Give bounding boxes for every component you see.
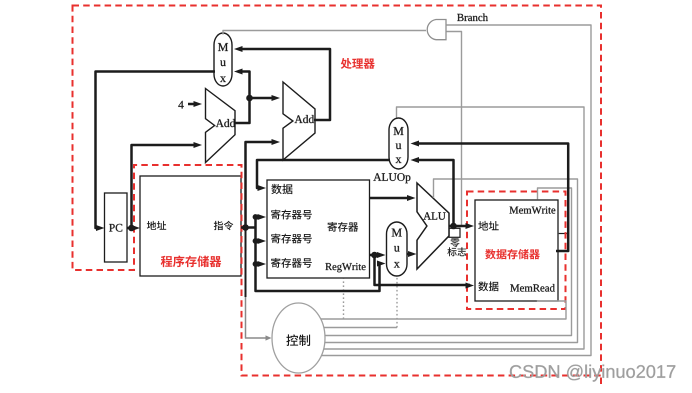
wire: read data 2 to data memory bbox=[375, 255, 471, 285]
label 寄存器号 2 bbox=[271, 234, 312, 244]
zero flag box 零标志 bbox=[449, 228, 460, 237]
arrowhead into PC bbox=[96, 225, 105, 231]
wire: to register number input bbox=[256, 216, 263, 219]
label 标志 bbox=[447, 247, 466, 256]
processor dashed boundary 处理器 bbox=[73, 6, 602, 376]
label MemWrite bbox=[510, 207, 556, 214]
wire: Mux2 output to register write data bbox=[257, 160, 390, 188]
data memory dashed box bbox=[467, 192, 566, 310]
wire: RegWrite dotted riser bbox=[343, 279, 345, 320]
label MemRead bbox=[510, 284, 555, 292]
adder Add2 bbox=[283, 82, 315, 160]
wire: constant 4 to Add1 bbox=[188, 103, 198, 106]
register file 寄存器 bbox=[267, 180, 370, 278]
arrowhead into 寄存器号 bbox=[258, 238, 267, 244]
wire: Add1 output to Mux1 bbox=[234, 72, 250, 124]
mux U2 (write-back) bbox=[389, 118, 408, 169]
arrowhead into Mux2 lower input bbox=[411, 157, 420, 163]
node: read data 2 junction bbox=[371, 252, 378, 259]
arrowhead into Add1 lower input bbox=[194, 142, 203, 148]
arrowhead into 数据 (data memory) bbox=[466, 283, 475, 289]
program memory 程序存储器 bbox=[140, 176, 241, 276]
arrowhead into Mux3 lower input bbox=[377, 261, 386, 267]
label 数据存储器 (red) bbox=[485, 249, 540, 259]
wire: Add2 output to Mux1 bbox=[238, 49, 330, 120]
wire: Zero flag to AND gate bbox=[447, 32, 462, 227]
arrowhead into Add2 upper input bbox=[272, 95, 281, 101]
arrowhead into 寄存器号 bbox=[258, 214, 267, 220]
wire: to register number input bbox=[256, 263, 263, 266]
arrowhead into Mux1 upper input bbox=[234, 46, 243, 52]
label 数据 (register file) bbox=[271, 184, 292, 194]
label 地址 (data memory) bbox=[478, 221, 498, 231]
label 地址 (program memory) bbox=[147, 221, 166, 230]
AND gate (branch) bbox=[427, 20, 446, 40]
wire: MemWrite control bbox=[325, 188, 572, 336]
wire: Mux1 output to PC bbox=[96, 72, 216, 229]
dashed overshoot below bottom-right corner bbox=[600, 378, 602, 388]
node: register tap 1 bbox=[253, 214, 259, 220]
node: PC output junction bbox=[128, 225, 135, 232]
node: register tap 2 bbox=[253, 238, 259, 244]
label Branch bbox=[457, 14, 488, 22]
arrowhead into Mux3 upper input bbox=[377, 252, 386, 258]
label 指令 bbox=[214, 221, 234, 230]
label Add (Add2) bbox=[295, 115, 315, 123]
wire: Mux3 select control bbox=[324, 327, 397, 329]
wire: read data 2 bbox=[370, 254, 382, 257]
wire: PC+4 to Add2 upper input bbox=[250, 97, 277, 100]
label 程序存储器 (red) bbox=[161, 256, 222, 268]
wire: Mux3 output to ALU bbox=[407, 253, 412, 256]
node: register tap 3 bbox=[253, 261, 259, 267]
arrow into control bbox=[266, 335, 272, 340]
arrowhead into Add2 lower input bbox=[272, 139, 281, 145]
label 寄存器号 3 bbox=[271, 258, 312, 268]
label RegWrite bbox=[325, 263, 365, 272]
node: instruction junction bbox=[242, 224, 249, 231]
label ALU bbox=[423, 212, 445, 219]
arrowhead into 地址 (data memory) bbox=[466, 223, 475, 229]
wire: read data 1 to ALU bbox=[370, 197, 412, 200]
label 寄存器 bbox=[328, 222, 359, 232]
label ALUOp bbox=[373, 173, 410, 183]
wire: immediate to Mux3 bbox=[256, 217, 382, 291]
label 寄存器号 1 bbox=[271, 210, 312, 220]
label 零 bbox=[450, 238, 459, 247]
wire: register number taps bbox=[246, 226, 256, 229]
arrowhead into 数据 (register file) bbox=[258, 185, 267, 191]
label PC bbox=[109, 224, 122, 232]
wire: MemRead control bbox=[321, 300, 566, 319]
wire: Mux2 select control bbox=[324, 107, 584, 349]
arrowhead into Mux1 lower input bbox=[234, 69, 243, 75]
mux U1 (PC source) bbox=[214, 33, 232, 86]
adder Add1 bbox=[206, 89, 236, 163]
wire: Mux3 select dotted riser bbox=[396, 277, 398, 328]
wire: data memory output to Mux2 bbox=[415, 144, 568, 252]
label 4 bbox=[178, 101, 183, 109]
wire: ALU result to Mux2 bbox=[415, 160, 454, 226]
wire: to register number input bbox=[256, 240, 263, 243]
data memory 数据存储器 bbox=[475, 200, 558, 301]
mux U3 (ALU source) bbox=[387, 222, 408, 276]
wire: PC to Add1 bbox=[132, 145, 199, 228]
arrowhead into ALU upper input bbox=[407, 195, 416, 201]
PC register bbox=[105, 193, 128, 262]
arrowhead into Add1 upper input bbox=[194, 101, 203, 107]
wire: PC to program memory address bbox=[127, 227, 136, 230]
node: ALU result junction bbox=[450, 223, 457, 230]
wire: ALU result to data memory address bbox=[449, 225, 471, 228]
control unit 控制 bbox=[272, 303, 325, 373]
data memory read port top edge bbox=[559, 233, 569, 235]
label 控制 bbox=[286, 334, 310, 346]
wire: instruction bus down segment bbox=[245, 228, 247, 298]
label 处理器 (red) bbox=[341, 58, 375, 69]
wire: AND gate output to Mux1 select bbox=[223, 31, 426, 35]
label 数据 (data memory) bbox=[478, 281, 498, 291]
wire: instruction bus to Add2 bbox=[241, 142, 276, 228]
wire: Branch control from control unit bbox=[321, 25, 591, 356]
watermark CSDN bbox=[510, 365, 675, 382]
wire: ALUOp control to ALU bbox=[325, 179, 578, 343]
wire: instruction to control unit bbox=[246, 295, 269, 338]
arrowhead into 地址 bbox=[132, 225, 141, 231]
arrowhead into Mux2 upper input bbox=[411, 141, 420, 147]
arrowhead into ALU lower input bbox=[408, 251, 417, 257]
arrowhead into 寄存器号 bbox=[258, 261, 267, 267]
node: PC+4 junction bbox=[246, 95, 253, 102]
op-amp ALU bbox=[417, 183, 449, 269]
label Add (Add1) bbox=[216, 119, 236, 127]
